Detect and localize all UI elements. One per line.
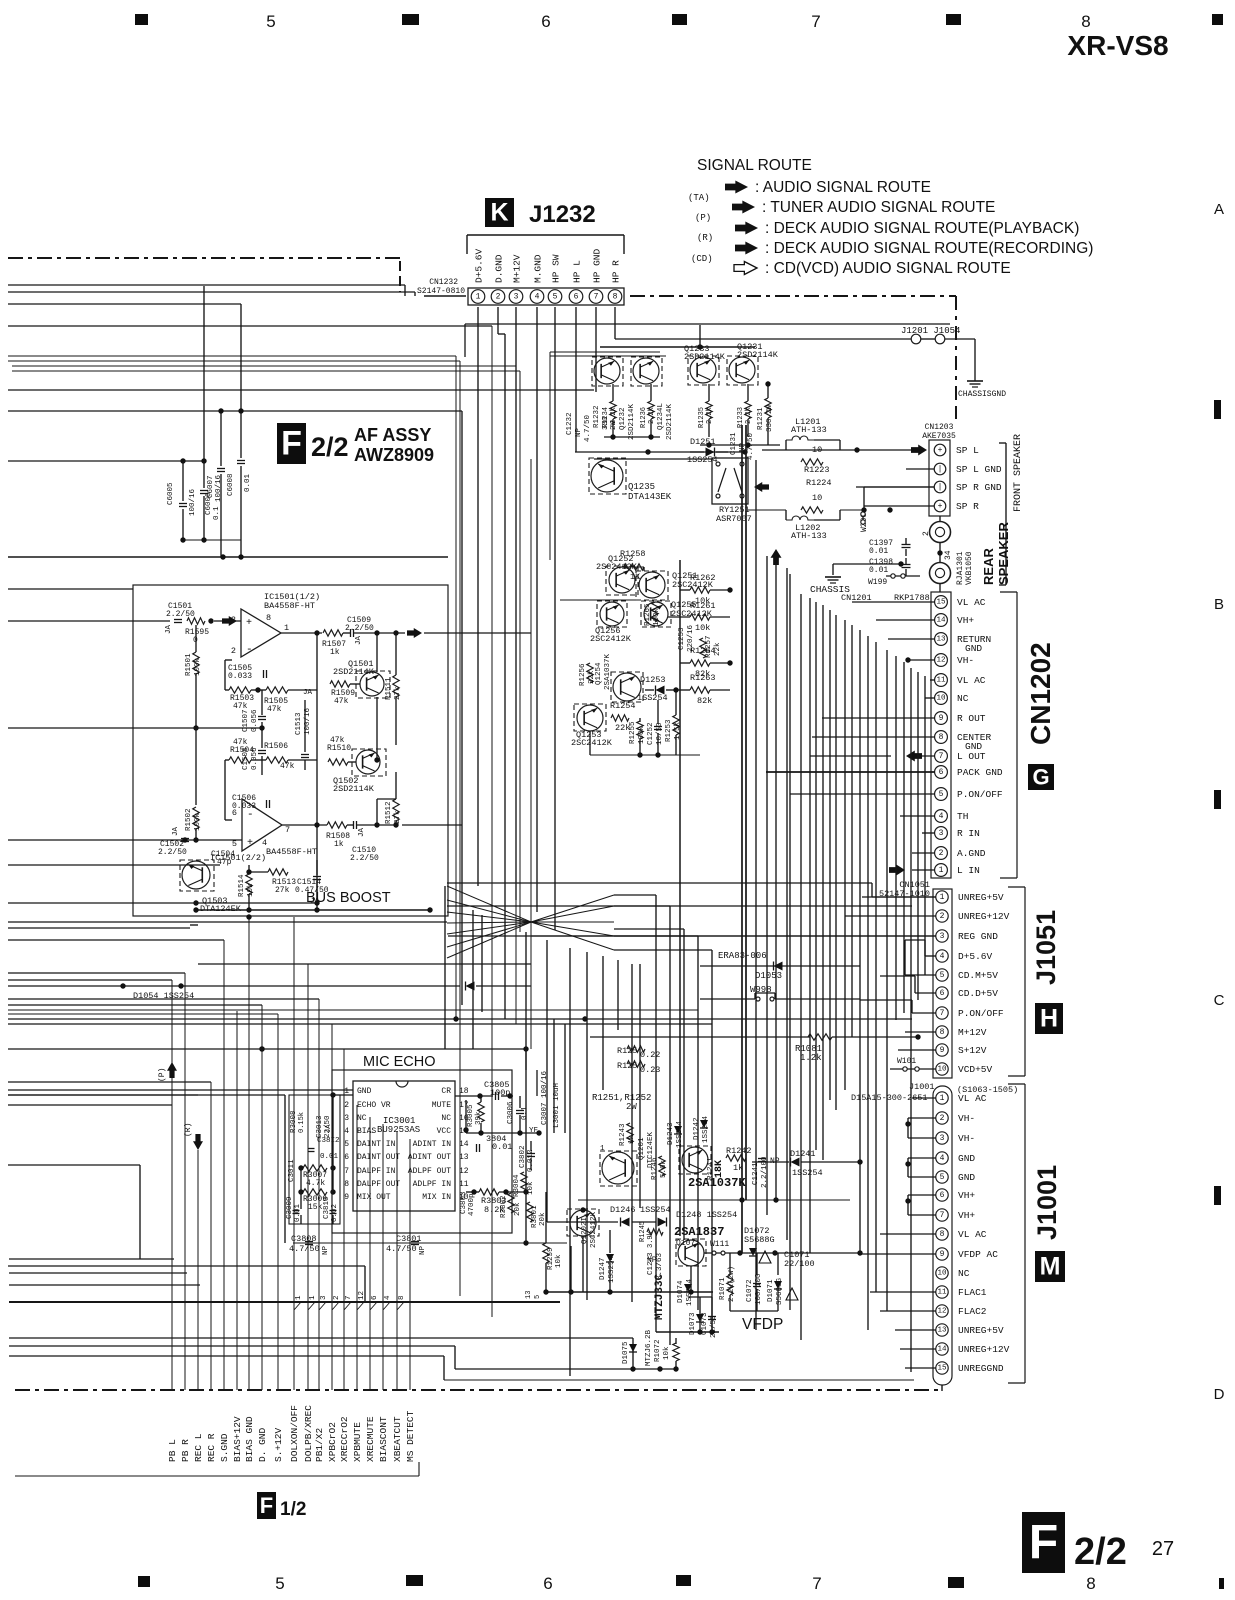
svg-text:CD.M+5V: CD.M+5V [958, 970, 998, 981]
ground CHASSISGND [967, 380, 983, 382]
wire vfdp net [578, 1199, 850, 1201]
svg-text:+: + [938, 446, 943, 455]
wire fb1 [224, 660, 226, 690]
J1001 pin 8 [936, 1228, 948, 1240]
svg-text:GND: GND [965, 643, 982, 654]
svg-text:JA: JA [358, 827, 366, 837]
resistor R3001 [527, 1202, 533, 1222]
svg-text:9: 9 [940, 1046, 945, 1055]
svg-text:R1263: R1263 [690, 673, 716, 683]
svg-text:R1246: R1246 [651, 1157, 659, 1180]
svg-text:1: 1 [939, 866, 944, 875]
block letter H [1035, 1003, 1063, 1034]
svg-text:22k: 22k [588, 670, 596, 684]
jumper W200 [862, 510, 864, 525]
svg-text:R1235: R1235 [698, 407, 706, 428]
wire board outline top [465, 323, 950, 325]
svg-text:13: 13 [936, 636, 946, 644]
svg-text:R OUT: R OUT [957, 713, 986, 724]
CN1202 pin 15 [935, 596, 948, 609]
boundary dash-dot corner [399, 261, 401, 292]
resistor R1512 [393, 799, 399, 821]
svg-text:MTZJ6.2B: MTZJ6.2B [645, 1329, 653, 1366]
svg-text:2: 2 [333, 1295, 341, 1300]
CN1202 pin 11 [935, 674, 948, 687]
svg-text:Q1234L: Q1234L [657, 402, 665, 430]
svg-text:NC: NC [957, 693, 969, 704]
wire signal XPBCrO2 [331, 1024, 333, 1390]
svg-text:CN1203: CN1203 [925, 423, 954, 432]
svg-text:0.033: 0.033 [232, 802, 256, 811]
svg-text:100/16: 100/16 [189, 488, 197, 516]
wire out2 [282, 824, 327, 826]
wire amp rails [624, 566, 644, 568]
svg-text:1: 1 [940, 1094, 945, 1103]
svg-text:D1075: D1075 [622, 1341, 630, 1364]
svg-text:PACK GND: PACK GND [957, 767, 1003, 778]
svg-text:0.01: 0.01 [869, 547, 888, 556]
svg-text:UNREG+12V: UNREG+12V [958, 1344, 1010, 1355]
svg-text:C6005: C6005 [167, 482, 175, 505]
wire signal S.+12V [277, 1014, 279, 1390]
resistor R1262 [690, 587, 710, 593]
wire signal REC L [197, 1150, 199, 1390]
svg-text:15: 15 [937, 1365, 947, 1373]
svg-text:2.2k(2W): 2.2k(2W) [728, 1266, 736, 1302]
pin number 3 [319, 1302, 326, 1310]
svg-text:4: 4 [344, 1127, 349, 1136]
transistor Q1233 [690, 357, 716, 383]
svg-text:GND: GND [357, 1087, 372, 1096]
wire bus left horizontals [8, 284, 405, 286]
box BUS BOOST [133, 585, 448, 916]
wire y1380 [444, 1379, 914, 1381]
pin number 4 [383, 1302, 390, 1310]
svg-text:MUTE: MUTE [432, 1101, 451, 1110]
svg-text:2.2/50: 2.2/50 [158, 848, 187, 857]
J1001 pin 10 [936, 1267, 948, 1279]
svg-text:SP L: SP L [956, 445, 979, 456]
J1001 pin 13 [936, 1324, 948, 1336]
J1232 pin 4 [530, 290, 544, 304]
svg-text:DOLPB/XREC: DOLPB/XREC [303, 1405, 314, 1462]
capacitor C3006 [516, 1110, 524, 1112]
svg-text:NP: NP [419, 1245, 427, 1255]
svg-text:R1502: R1502 [185, 808, 193, 831]
svg-text:VH-: VH- [958, 1113, 975, 1124]
svg-text:D1247: D1247 [599, 1257, 607, 1280]
svg-text:1.2k: 1.2k [800, 1053, 822, 1063]
J1001 pin 15 [936, 1362, 948, 1374]
svg-text:D1243: D1243 [667, 1122, 675, 1145]
J1232 pin 6 [569, 290, 583, 304]
svg-text:D+5.6V: D+5.6V [474, 248, 485, 283]
wire signal BIAS GND [248, 917, 250, 1390]
svg-text:6: 6 [574, 293, 579, 302]
svg-text:B: B [1214, 596, 1224, 613]
wires J1001 stubs [912, 1097, 936, 1099]
svg-text:10k: 10k [695, 623, 710, 633]
bracket front speaker [1005, 443, 1007, 585]
CN1051 pin 5 [936, 969, 948, 981]
svg-text:0.1: 0.1 [521, 1106, 529, 1120]
CN1202 pin 4 [935, 810, 948, 823]
svg-text:2: 2 [496, 293, 501, 302]
CN1051 pin 1 [936, 891, 948, 903]
svg-text:0.033: 0.033 [228, 672, 252, 681]
svg-text:C1232: C1232 [566, 412, 574, 435]
CN1051 pin 7 [936, 1007, 948, 1019]
svg-text:R1255: R1255 [629, 721, 637, 744]
ruler mark bottom 1 [138, 1576, 150, 1587]
svg-text:UNREG+12V: UNREG+12V [958, 911, 1010, 922]
wire opamp1 in [214, 620, 241, 622]
svg-text:NC: NC [441, 1114, 451, 1123]
svg-text:R1506: R1506 [264, 742, 288, 751]
resistor R1502 [193, 807, 199, 829]
sheet label F 2/2 bottom right [1022, 1512, 1065, 1573]
op-amp U1b IC1501 2/2 [242, 799, 282, 851]
svg-text:27k: 27k [394, 810, 402, 824]
svg-text:2: 2 [939, 849, 944, 858]
svg-text:8: 8 [344, 1180, 349, 1189]
svg-text:: AUDIO SIGNAL ROUTE: : AUDIO SIGNAL ROUTE [755, 179, 931, 196]
svg-text:2SC2412K: 2SC2412K [590, 1211, 598, 1248]
resistor R1236 [648, 401, 654, 419]
svg-text:+: + [246, 618, 252, 629]
wire bottom-left bundle [9, 1258, 174, 1260]
svg-text:VH+: VH+ [958, 1210, 975, 1221]
diode D1054 [8, 985, 460, 987]
resistor R1246 [659, 1156, 665, 1176]
resistor R1235 [706, 401, 712, 419]
svg-text:82k: 82k [697, 696, 712, 706]
svg-text:R1224: R1224 [806, 478, 832, 488]
svg-text:VH-: VH- [957, 655, 974, 666]
svg-text:CD.D+5V: CD.D+5V [958, 988, 998, 999]
wire y1369 [455, 1368, 676, 1370]
svg-text:DTA143EK: DTA143EK [628, 492, 672, 502]
block letter M [1035, 1251, 1065, 1282]
jack J1054 [935, 334, 945, 344]
svg-text:1: 1 [309, 1295, 317, 1300]
block letter G [1028, 764, 1054, 790]
svg-text:L OUT: L OUT [957, 751, 986, 762]
svg-text:F: F [1029, 1516, 1058, 1569]
svg-text:1SS254: 1SS254 [702, 1115, 710, 1143]
resistor R3005 [478, 1102, 484, 1122]
pin number 7 [344, 1302, 351, 1310]
svg-text:8: 8 [398, 1295, 406, 1300]
svg-text:VL AC: VL AC [957, 597, 986, 608]
boundary dash-dot right vertical [955, 296, 957, 418]
svg-text:P.ON/OFF: P.ON/OFF [957, 789, 1003, 800]
svg-text:NC: NC [958, 1268, 970, 1279]
resistor R1256 [587, 663, 593, 683]
svg-text:8: 8 [940, 1028, 945, 1037]
svg-text:27k: 27k [394, 686, 402, 700]
svg-text:2: 2 [344, 1101, 349, 1110]
box MIC ECHO [332, 1070, 512, 1233]
svg-text:4: 4 [535, 293, 540, 302]
svg-text:FRONT SPEAKER: FRONT SPEAKER [1013, 434, 1024, 512]
wire chassis branch [833, 563, 901, 565]
svg-text:5: 5 [939, 790, 944, 799]
resistor R1595 [187, 618, 205, 624]
svg-text:G: G [1032, 765, 1049, 790]
svg-text:100k: 100k [638, 725, 646, 744]
svg-text:AWZ8909: AWZ8909 [354, 445, 434, 465]
svg-text:R1512: R1512 [385, 801, 393, 824]
svg-text:2.2/50: 2.2/50 [345, 624, 374, 633]
svg-text:F: F [281, 425, 302, 463]
svg-text:ATH-133: ATH-133 [791, 425, 827, 435]
svg-text:S+12V: S+12V [958, 1045, 987, 1056]
boundary dash-dot bottom [15, 1389, 938, 1391]
svg-text:3: 3 [940, 1134, 945, 1143]
wire mic bottom [293, 1242, 567, 1244]
svg-text:DAINT IN: DAINT IN [357, 1140, 396, 1149]
svg-text:2SD2114K: 2SD2114K [333, 667, 375, 677]
svg-text:4: 4 [384, 1295, 392, 1300]
svg-text:8: 8 [939, 733, 944, 742]
pin number 1 [294, 1302, 301, 1310]
svg-text:S5688G: S5688G [744, 1235, 775, 1245]
CN1203 pin 4 [934, 500, 946, 512]
wire between jacks [939, 542, 941, 563]
wire caps mid [261, 690, 263, 715]
svg-text:27: 27 [1152, 1538, 1174, 1560]
svg-text:2: 2 [940, 1114, 945, 1123]
svg-text:D1253: D1253 [640, 675, 666, 685]
svg-text:XRECMUTE: XRECMUTE [365, 1416, 376, 1462]
legend arrow deck playback [735, 222, 758, 235]
resistor R1257 [700, 638, 706, 658]
svg-text:VCC: VCC [437, 1127, 452, 1136]
svg-text:4700p: 4700p [468, 1193, 476, 1216]
svg-text:9: 9 [939, 714, 944, 723]
wire q1501 [376, 633, 378, 672]
resistor R1265 [652, 602, 658, 622]
transistor Q1201 [602, 1152, 634, 1184]
transistor Q1503 [182, 861, 210, 889]
svg-text:11: 11 [936, 677, 946, 685]
svg-text:C38I2: C38I2 [317, 1137, 340, 1145]
ruler mark right 2 [1214, 790, 1221, 809]
resistor R3004 [521, 1172, 527, 1192]
svg-text:4.7k: 4.7k [306, 1179, 325, 1188]
svg-text:9: 9 [940, 1250, 945, 1259]
svg-text:C3009: C3009 [286, 1196, 294, 1219]
svg-text:VH+: VH+ [957, 615, 974, 626]
svg-text:(CD): (CD) [691, 254, 713, 264]
svg-text:330 2W: 330 2W [766, 404, 774, 432]
svg-text:J1001: J1001 [909, 1082, 935, 1092]
wire signal DOLXON/OFF [293, 917, 295, 1390]
ruler mark top 3 [672, 14, 687, 25]
wire vcc rail [466, 1132, 539, 1134]
wire to chassis gnd [974, 339, 976, 381]
CN1202 pin 8 [935, 731, 948, 744]
svg-text:100/16: 100/16 [215, 474, 223, 502]
svg-text:R3005: R3005 [467, 1104, 475, 1127]
svg-text:K: K [490, 199, 508, 227]
pin number 8 [397, 1302, 404, 1310]
connector CN1051 body [933, 889, 952, 1078]
svg-text:6: 6 [939, 768, 944, 777]
ruler mark top right [1212, 14, 1223, 25]
svg-text:C1513: C1513 [295, 712, 303, 735]
wire bus to mic echo [8, 1089, 353, 1091]
svg-text:FLAC1: FLAC1 [958, 1287, 987, 1298]
CN1051 pin 9 [936, 1044, 948, 1056]
sheet label F 1/2 bottom left [257, 1492, 276, 1519]
legend arrow cd open [734, 262, 757, 275]
arrow audio in1 [222, 616, 237, 626]
svg-text:15: 15 [936, 599, 946, 607]
wire sub-board box [550, 351, 660, 353]
resistor R1245 [647, 1229, 663, 1235]
svg-text:3: 3 [320, 1295, 328, 1300]
svg-text:VFDP AC: VFDP AC [958, 1249, 998, 1260]
diode D1071 [774, 1281, 782, 1289]
svg-text:R1261: R1261 [690, 601, 716, 611]
svg-text:3.9k: 3.9k [647, 1231, 655, 1248]
svg-text:SIGNAL ROUTE: SIGNAL ROUTE [697, 157, 812, 174]
svg-text:4.7/50: 4.7/50 [584, 414, 592, 442]
svg-text:SP L GND: SP L GND [956, 464, 1002, 475]
wire SP pins stubs [906, 468, 934, 470]
svg-text:CHASSISGND: CHASSISGND [958, 390, 1006, 399]
wire jack to CN1202 [939, 583, 941, 592]
svg-text:C6007: C6007 [207, 475, 215, 498]
resistor R3003 [479, 1189, 499, 1195]
svg-text:DALPF IN: DALPF IN [357, 1167, 396, 1176]
svg-text:UNREGGND: UNREGGND [958, 1363, 1004, 1374]
wire signal XRECCrO2 [343, 1049, 345, 1390]
resistor R3009 [303, 1189, 327, 1195]
svg-text:0.01: 0.01 [320, 1153, 339, 1161]
J1001 pin 3 [936, 1132, 948, 1144]
J1001 pin 9 [936, 1248, 948, 1260]
svg-text:Q1201: Q1201 [638, 1137, 646, 1160]
svg-text:13: 13 [937, 1327, 947, 1335]
svg-text:BA4558F-HT: BA4558F-HT [266, 847, 317, 857]
svg-text:2/2: 2/2 [1074, 1531, 1127, 1573]
wires q123x emitters [612, 384, 614, 401]
wires CN1051 stubs [862, 896, 936, 898]
svg-text:8: 8 [1086, 1574, 1095, 1593]
CN1202 pin 14 [935, 614, 948, 627]
svg-text:CN1202: CN1202 [1025, 642, 1056, 745]
svg-text:DALPF OUT: DALPF OUT [357, 1180, 400, 1189]
transistor Q1254 [613, 673, 641, 701]
svg-text:9: 9 [344, 1193, 349, 1202]
wire fb2 [224, 760, 226, 820]
svg-text:VKB1050: VKB1050 [965, 551, 974, 585]
CN1051 pin 8 [936, 1026, 948, 1038]
svg-text:VL AC: VL AC [958, 1093, 987, 1104]
svg-text:MS DETECT: MS DETECT [405, 1410, 416, 1462]
svg-text:SP R: SP R [956, 501, 979, 512]
svg-text:7: 7 [594, 293, 599, 302]
boundary dash-dot top right [630, 295, 956, 297]
svg-text:Q1254: Q1254 [595, 662, 603, 685]
wire signal S.GND [223, 940, 225, 1390]
svg-text:2SD2114K: 2SD2114K [628, 403, 636, 440]
svg-text:R1223: R1223 [804, 465, 830, 475]
svg-text:R3802: R3802 [500, 1195, 508, 1218]
svg-text:J1232: J1232 [529, 201, 596, 228]
wire out1b [374, 630, 379, 635]
wire R1502 col [195, 728, 197, 805]
svg-text:R1233: R1233 [737, 407, 745, 428]
svg-text:1k: 1k [330, 648, 340, 657]
transistor Q1255 [644, 602, 668, 626]
svg-text:5: 5 [940, 1173, 945, 1182]
bracket CN1202 [1016, 592, 1018, 878]
svg-text:7: 7 [344, 1167, 349, 1176]
wire busboost bottom [196, 909, 430, 911]
svg-text:+: + [247, 838, 253, 849]
ruler mark bottom right [1219, 1578, 1224, 1589]
svg-text:7: 7 [285, 825, 290, 835]
wire center verticals below star [444, 886, 446, 1049]
ruler mark right 3 [1214, 1186, 1221, 1205]
wire signal PB L [171, 980, 173, 1390]
svg-text:7: 7 [812, 1574, 821, 1593]
pin number 2 [332, 1302, 339, 1310]
svg-text:VH+: VH+ [958, 1190, 975, 1201]
svg-text:MIC ECHO: MIC ECHO [363, 1054, 436, 1070]
svg-text:XR-VS8: XR-VS8 [1067, 30, 1168, 61]
svg-text:34: 34 [944, 550, 953, 560]
resistor R1231 [765, 398, 771, 418]
svg-text:4.7/50: 4.7/50 [386, 1244, 417, 1254]
CN1202 pin 10 [935, 692, 948, 705]
wire pin7 long [582, 1016, 587, 1021]
transistor Q1256 [600, 602, 624, 626]
wire cap gnd [183, 539, 241, 541]
svg-text:R1254: R1254 [610, 701, 636, 711]
jack rear speaker L [930, 522, 951, 543]
resistor R1506 [266, 757, 288, 763]
resistor R1511 [393, 675, 399, 697]
svg-text:2.2k: 2.2k [610, 407, 618, 424]
transistor Q1071 [678, 1240, 704, 1266]
svg-text:PB L: PB L [167, 1439, 178, 1462]
wire opamp2 in [150, 839, 242, 841]
jumper W199 [886, 575, 920, 577]
svg-text:CN1232: CN1232 [429, 278, 458, 287]
J1001 pin 6 [936, 1189, 948, 1201]
ruler mark right 1 [1214, 400, 1221, 419]
resistor R1234 [610, 401, 616, 419]
resistor R1263 [690, 687, 710, 693]
svg-text:XRECCrO2: XRECCrO2 [339, 1416, 350, 1462]
svg-text:XPBMUTE: XPBMUTE [352, 1422, 363, 1462]
svg-text:REG GND: REG GND [958, 931, 998, 942]
svg-text:: CD(VCD) AUDIO SIGNAL ROUTE: : CD(VCD) AUDIO SIGNAL ROUTE [765, 260, 1011, 277]
resistor R1510 [328, 759, 348, 765]
wire signal MS DETECT [409, 1139, 411, 1390]
wire L1202 [748, 509, 786, 511]
svg-text:MIX IN: MIX IN [422, 1193, 451, 1202]
svg-text:1: 1 [284, 623, 289, 633]
svg-text:S.+12V: S.+12V [273, 1427, 284, 1462]
arrow L OUT [906, 751, 922, 762]
svg-text:5: 5 [275, 1574, 284, 1593]
